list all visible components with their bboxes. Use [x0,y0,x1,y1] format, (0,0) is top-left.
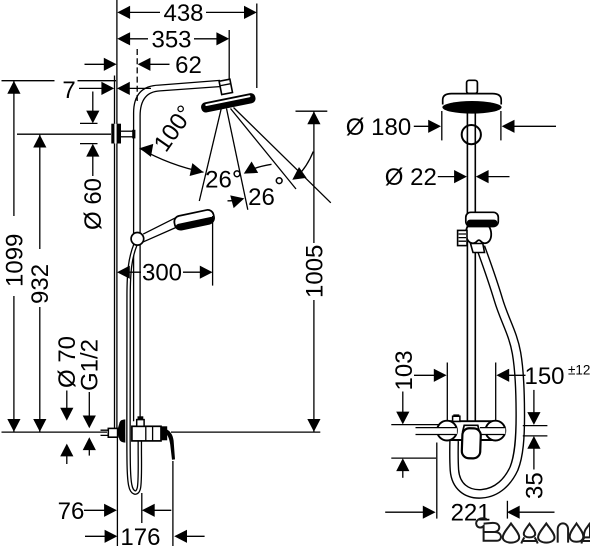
dim diameter 22 [438,170,510,183]
spray ray 4 [234,108,331,203]
slider knob right view [458,230,467,245]
dim 62 [85,58,170,71]
union stub left [416,428,457,435]
watermark VODOPAD [476,518,590,543]
mixer supply lines left [101,430,109,435]
svg-text:1099: 1099 [1,234,28,287]
spray ray 2 [227,109,248,210]
dim 438 [117,4,256,89]
overhead head dome front [443,94,502,105]
dim 932 [33,135,46,432]
ref line handle bottom 103 [391,457,436,459]
angle arc 100 [138,142,205,179]
hand shower head front [466,212,499,226]
bracket stem [121,130,135,139]
wall second line [114,76,116,429]
svg-text:438: 438 [163,0,203,27]
spray ray 3 [231,109,297,190]
watermark letter D2 [581,524,590,544]
slider knob circle [131,233,144,246]
union circle left [437,421,457,441]
head extension line left [441,111,443,140]
dim 300 [117,266,213,279]
rod left edge with elbow curve [134,85,159,421]
bracket reference line 932 [17,133,111,135]
rod right edge with elbow curve [140,91,160,421]
wall face line front [116,0,118,428]
svg-text:103: 103 [391,350,418,390]
mixer centerline right [171,431,320,433]
mixer top nipple [137,416,144,426]
ref line union left [446,363,448,421]
elbow joint [219,79,232,94]
spray ray 1 [199,108,221,202]
arm bottom edge [160,87,220,91]
holder handle stem [471,244,485,253]
pipe right view [467,111,475,422]
svg-text:26: 26 [205,166,232,193]
svg-text:±12: ±12 [568,363,590,378]
svg-text:176: 176 [120,524,160,550]
mixer body left view [132,426,167,441]
dim 176 [85,530,205,543]
svg-text:150: 150 [524,363,564,390]
svg-text:26: 26 [248,184,275,211]
ref line 221 right [506,501,508,519]
mixer body front pill [437,421,503,440]
watermark letter P [558,523,568,542]
arm top edge [159,80,220,85]
mixer top stub front [453,414,460,421]
mixer escutcheon cone [118,419,126,442]
dim 221 [385,506,554,519]
svg-text:Ø 180: Ø 180 [346,114,411,141]
watermark letter V [476,518,501,541]
mixer centerline left [2,431,108,433]
overhead head dark face band [442,101,501,114]
angle arc 26 second right arrow [289,152,314,186]
angle arc 26 first right arrow [241,161,272,179]
svg-text:7: 7 [62,77,75,104]
angle arc 26 second left arrow [228,192,247,208]
svg-text:1005: 1005 [301,245,328,298]
svg-text:300: 300 [142,260,182,287]
dim diameter 60 [80,92,99,177]
ref line 221 left [436,443,438,519]
svg-text:Ø 60: Ø 60 [80,178,107,230]
handshower tip reference line [212,216,214,286]
union circle right [486,421,506,441]
dim G1/2 [83,392,96,456]
mixer handle front [462,425,481,458]
dim 353 [117,30,229,79]
svg-text:76: 76 [58,498,85,525]
svg-text:353: 353 [151,26,191,53]
dim 1005 [307,111,320,431]
rod dashed centerline [136,49,138,104]
watermark letter A [570,524,584,542]
hand shower hose (left view) [128,245,139,493]
dim 103 vertical [396,392,409,478]
degree circle second [276,178,282,184]
degree circle first [234,171,240,177]
head spray reference line 1005 [296,110,328,112]
top nipple [467,80,478,93]
handle tip reference line [172,461,174,546]
watermark letter D1 [521,524,537,544]
wall bracket [111,124,121,144]
ball joint ring [462,125,481,144]
hose right view [454,247,520,494]
holder clamp lobes [466,227,491,244]
dim 1099 [7,81,20,432]
hose loop reference line [141,493,143,523]
dim 7 [79,82,151,95]
mixer lever left view [163,429,175,460]
svg-text:932: 932 [27,264,54,304]
head extension line right [500,111,502,140]
dim diameter 180 [414,120,556,133]
svg-text:62: 62 [175,52,202,79]
hand shower handle lines [143,217,177,242]
ref line union right [495,363,497,421]
ref line mixer top 103 [391,424,438,426]
RIGHT VIEW [385,80,556,519]
dim 76 [84,504,171,517]
svg-text:35: 35 [522,472,549,499]
dim diameter 70 [60,391,73,465]
watermark letter O1 [503,524,519,543]
mixer supply stub G1/2 [108,428,117,437]
svg-text:Ø 22: Ø 22 [385,164,437,191]
svg-text:100°: 100° [149,101,200,157]
dim 150 [414,369,526,382]
hand shower head [173,209,215,231]
watermark letter O2 [538,524,554,543]
top reference line [2,80,117,82]
overhead shower head (side, tilted) [200,92,256,113]
svg-text:G1/2: G1/2 [77,339,104,391]
union stub right [480,428,505,435]
wall face line lower [116,437,118,546]
dim 35 [523,390,548,470]
